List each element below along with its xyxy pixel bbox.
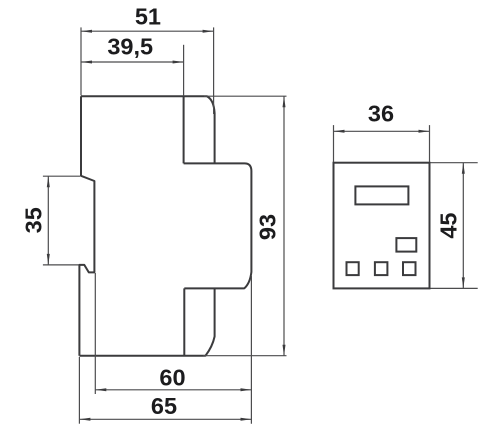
bottom edge with rounded right corner (79, 288, 214, 355)
interior vertical edge at 39.5 step (top) (183, 96, 185, 163)
small button right (396, 238, 416, 252)
svg-text:65: 65 (151, 393, 177, 419)
front face top corner and upper step (184, 163, 252, 171)
extension lines top (80, 27, 82, 95)
dim line 45 (462, 163, 464, 289)
36 arrows (334, 130, 345, 133)
arrowheads (47, 30, 286, 421)
bottom button 1 (347, 262, 359, 275)
outline box (334, 163, 430, 289)
dim line 35 (47, 176, 49, 265)
svg-text:60: 60 (159, 364, 185, 390)
60 (95, 388, 106, 391)
interior vertical edge (bottom terminal area) (183, 288, 185, 355)
35 (47, 176, 50, 187)
svg-text:45: 45 (435, 213, 461, 239)
svg-text:36: 36 (368, 101, 394, 127)
45 arrows (462, 163, 465, 174)
lower step and front-face bottom corner (184, 171, 251, 288)
35: extension lines (43, 175, 80, 177)
65 (79, 418, 90, 421)
39.5 (81, 61, 92, 64)
display window (355, 186, 408, 204)
svg-text:93: 93 (255, 214, 281, 240)
bottom button 2 (375, 262, 388, 275)
dim line 65 (79, 418, 251, 420)
51 (81, 30, 92, 33)
svg-text:51: 51 (135, 3, 161, 29)
dim line 36 (334, 130, 430, 132)
93 (283, 96, 286, 107)
dim line 51 (81, 30, 214, 32)
dim line 60 (95, 389, 251, 391)
right upper edge and top-right rounded corner (81, 96, 215, 163)
body outline left side with DIN clip (79, 96, 94, 356)
36 extension lines (333, 125, 335, 162)
dim line 39.5 (81, 61, 184, 63)
dimension + extension lines (43, 27, 287, 423)
svg-text:39,5: 39,5 (107, 33, 153, 59)
dim line 93 (283, 96, 285, 356)
45 extension lines (431, 162, 478, 164)
bottom button 3 (403, 262, 416, 275)
93: extension lines (204, 95, 287, 97)
bottom extension lines (78, 357, 80, 424)
svg-text:35: 35 (21, 207, 47, 233)
